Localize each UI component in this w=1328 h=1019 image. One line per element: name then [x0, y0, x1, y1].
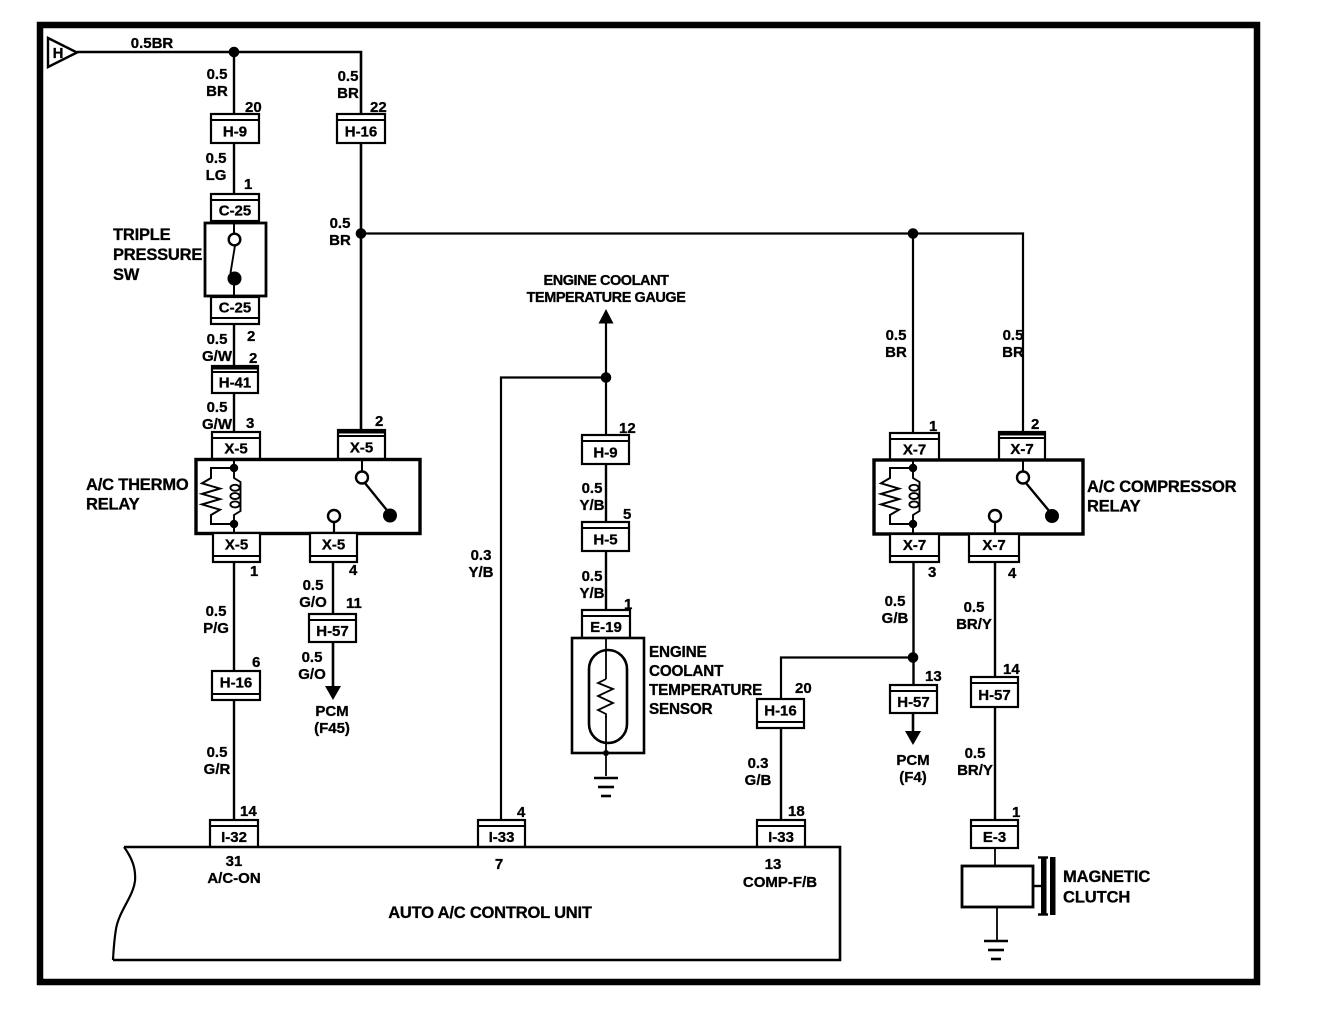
svg-text:31: 31: [226, 853, 243, 870]
connector I-32 pin 14: [210, 803, 258, 848]
svg-text:0.5: 0.5: [207, 399, 228, 416]
svg-text:0.5: 0.5: [964, 599, 985, 616]
svg-text:TEMPERATURE GAUGE: TEMPERATURE GAUGE: [527, 290, 687, 306]
svg-text:0.3: 0.3: [748, 755, 769, 772]
pin 13 / COMP-F/B labels: [743, 856, 817, 891]
svg-text:4: 4: [517, 804, 526, 821]
svg-text:0.5BR: 0.5BR: [131, 35, 174, 52]
label 0.5 G/O 2: [298, 649, 326, 683]
svg-text:0.5: 0.5: [302, 649, 323, 666]
connector X-7 bottom-mid pin 4: [969, 534, 1019, 582]
svg-text:E-19: E-19: [590, 619, 622, 636]
wire 0.3 Y/B long run: [501, 378, 606, 821]
svg-text:X-7: X-7: [982, 537, 1005, 554]
wire 0.5 G/B down: [912, 562, 914, 685]
label 0.5 G/W 2: [202, 399, 233, 433]
ground clutch ground: [984, 941, 1008, 959]
svg-text:(F4): (F4): [899, 769, 927, 786]
label 0.5 G/W 1: [202, 331, 233, 365]
svg-text:2: 2: [375, 413, 383, 430]
label ENGINE COOLANT TEMPERATURE GAUGE: [527, 273, 687, 306]
svg-text:H-41: H-41: [219, 375, 252, 392]
svg-text:G/O: G/O: [299, 594, 327, 611]
svg-text:H-16: H-16: [345, 124, 378, 141]
svg-text:20: 20: [245, 99, 262, 116]
svg-text:AUTO A/C CONTROL UNIT: AUTO A/C CONTROL UNIT: [388, 904, 592, 922]
svg-text:G/R: G/R: [204, 761, 231, 778]
svg-text:Y/B: Y/B: [579, 585, 604, 602]
svg-text:RELAY: RELAY: [86, 496, 140, 514]
label 0.5 BR col2: [337, 68, 359, 102]
svg-text:COOLANT: COOLANT: [649, 663, 724, 680]
junction bus tap at X-7 no1: [908, 228, 919, 239]
svg-text:1: 1: [1012, 804, 1020, 821]
svg-text:1: 1: [244, 176, 252, 193]
svg-text:14: 14: [240, 803, 257, 820]
svg-text:H-9: H-9: [593, 445, 617, 462]
wire 0.5 Y/B seg2: [605, 551, 607, 610]
svg-text:H-16: H-16: [220, 675, 253, 692]
relay switch compressor relay: [989, 472, 1059, 535]
connector I-33 left pin 4: [478, 804, 526, 848]
svg-text:LG: LG: [206, 167, 227, 184]
wire X-5(2) pivot stub: [361, 461, 363, 472]
junction tap to H-16(20): [908, 652, 919, 663]
connector H (source triangle): [48, 38, 77, 67]
connector C-25 bottom pin 2: [211, 297, 259, 345]
wire coil to X-7(3): [912, 524, 914, 534]
connector H-16 mid-left pin 6: [212, 654, 260, 700]
svg-text:X-7: X-7: [1010, 441, 1033, 458]
svg-text:BR/Y: BR/Y: [957, 762, 993, 779]
wire clutch to ground: [996, 907, 998, 940]
wire 0.5 BR/Y seg2: [994, 707, 996, 820]
relay coil+resistor compressor relay: [881, 464, 920, 528]
label 0.5 G/O 1: [299, 577, 327, 611]
wire X-5(3) into relay: [233, 459, 235, 468]
connector H-57 right-lower pin 13: [890, 668, 942, 713]
svg-text:6: 6: [252, 654, 260, 671]
pin 31 / A/C-ON labels: [207, 853, 260, 887]
label TRIPLE PRESSURE SW: [113, 226, 202, 284]
label 0.5 BR/Y 2: [957, 745, 993, 779]
magnetic clutch body: [962, 857, 1056, 915]
wire 0.5 P/G: [233, 562, 235, 671]
svg-text:TEMPERATURE: TEMPERATURE: [649, 682, 762, 699]
svg-text:I-33: I-33: [489, 829, 515, 846]
svg-text:13: 13: [925, 668, 942, 685]
wire 0.5 G/O seg1: [332, 562, 334, 614]
wire E-3 to clutch: [994, 848, 996, 866]
svg-text:H-57: H-57: [897, 694, 930, 711]
label 0.5 LG: [206, 150, 227, 184]
svg-text:0.5: 0.5: [885, 593, 906, 610]
svg-text:2: 2: [249, 350, 257, 367]
connector H-16 pin 22: [337, 99, 387, 143]
svg-text:BR: BR: [337, 85, 359, 102]
svg-text:BR: BR: [885, 344, 907, 361]
svg-text:0.5: 0.5: [886, 327, 907, 344]
wire 0.5BR feed from H: [77, 52, 361, 114]
connector H-16 lower-mid pin 20: [757, 680, 812, 728]
svg-text:CLUTCH: CLUTCH: [1063, 889, 1130, 907]
svg-text:PRESSURE: PRESSURE: [113, 246, 202, 264]
svg-text:Y/B: Y/B: [579, 497, 604, 514]
svg-text:0.5: 0.5: [206, 150, 227, 167]
label 0.5 BR/Y 1: [956, 599, 992, 633]
svg-text:C-25: C-25: [219, 300, 252, 317]
label 0.5 BR x1023: [1002, 327, 1024, 361]
wire 0.3 G/B: [780, 728, 782, 820]
svg-text:20: 20: [795, 680, 812, 697]
label ENGINE COOLANT TEMPERATURE SENSOR: [649, 644, 762, 718]
svg-text:2: 2: [1031, 416, 1039, 433]
connector H-57 left pin 11: [309, 614, 356, 642]
junction gauge line tap: [601, 372, 612, 383]
svg-text:0.5: 0.5: [1003, 327, 1024, 344]
svg-text:H-16: H-16: [764, 703, 797, 720]
svg-text:H-57: H-57: [978, 687, 1011, 704]
wire 0.5 G/W seg2: [233, 393, 235, 432]
svg-text:3: 3: [246, 415, 254, 432]
label MAGNETIC CLUTCH: [1063, 868, 1150, 907]
label 0.5 P/G: [203, 603, 229, 637]
wire 0.5 G/R: [233, 700, 235, 820]
svg-text:Y/B: Y/B: [468, 564, 493, 581]
svg-text:0.5: 0.5: [965, 745, 986, 762]
svg-text:MAGNETIC: MAGNETIC: [1063, 868, 1150, 886]
svg-text:I-32: I-32: [221, 829, 247, 846]
svg-text:1: 1: [624, 596, 632, 613]
wire X-7(1) into relay: [912, 460, 914, 468]
connector C-25 top pin 1: [211, 176, 259, 221]
connector X-7 top-left pin 1: [890, 418, 939, 460]
svg-text:H-57: H-57: [316, 623, 349, 640]
svg-text:ENGINE: ENGINE: [649, 644, 706, 661]
svg-text:RELAY: RELAY: [1087, 498, 1141, 516]
arrow to gauge (up): [599, 309, 614, 435]
svg-text:G/W: G/W: [202, 416, 233, 433]
wire branch down to H-9: [233, 52, 235, 114]
auto A/C control unit box: [113, 847, 840, 960]
svg-text:18: 18: [788, 803, 805, 820]
svg-text:A/C COMPRESSOR: A/C COMPRESSOR: [1087, 478, 1237, 496]
wire drop to X-7 no1: [912, 234, 914, 434]
connector H-5 pin 5: [582, 506, 631, 551]
connector H-41 pin 2: [211, 350, 259, 393]
svg-text:P/G: P/G: [203, 620, 229, 637]
connector X-5 bottom-left pin 1: [213, 533, 260, 580]
switch contact circle: [229, 234, 241, 246]
svg-text:X-7: X-7: [903, 442, 926, 459]
label A/C COMPRESSOR RELAY: [1087, 478, 1237, 516]
ground sensor ground: [594, 778, 618, 796]
svg-text:A/C-ON: A/C-ON: [207, 870, 260, 887]
label 0.5BR: [131, 35, 174, 52]
connector X-5 bottom-mid pin 4: [310, 533, 358, 579]
svg-text:PCM: PCM: [896, 752, 929, 769]
svg-text:14: 14: [1003, 661, 1020, 678]
svg-text:ENGINE COOLANT: ENGINE COOLANT: [543, 273, 669, 289]
svg-text:X-5: X-5: [322, 537, 345, 554]
label 0.5 BR at bus: [329, 215, 351, 249]
label 0.5 Y/B 1: [579, 480, 604, 514]
label 0.5 BR x913: [885, 327, 907, 361]
svg-text:0.5: 0.5: [206, 603, 227, 620]
svg-text:12: 12: [619, 420, 636, 437]
svg-text:SW: SW: [113, 266, 140, 284]
svg-text:1: 1: [250, 563, 258, 580]
svg-text:TRIPLE: TRIPLE: [113, 226, 171, 244]
svg-text:(F45): (F45): [314, 720, 350, 737]
svg-text:E-3: E-3: [983, 829, 1006, 846]
svg-text:0.5: 0.5: [207, 744, 228, 761]
label 0.5 G/B: [882, 593, 909, 627]
svg-text:11: 11: [346, 595, 362, 612]
triple pressure switch body: [205, 223, 266, 296]
svg-text:G/B: G/B: [882, 610, 909, 627]
wire bus 0.5BR horizontal: [361, 234, 1023, 433]
svg-text:0.5: 0.5: [582, 568, 603, 585]
A/C thermo relay box: [196, 460, 420, 534]
label PCM (F45): [314, 703, 350, 737]
label A/C THERMO RELAY: [86, 476, 189, 514]
svg-text:0.5: 0.5: [303, 577, 324, 594]
svg-text:0.5: 0.5: [207, 66, 228, 83]
svg-text:H-9: H-9: [223, 124, 247, 141]
connector X-7 bottom-left pin 3: [890, 534, 939, 581]
svg-text:X-7: X-7: [903, 537, 926, 554]
svg-text:BR: BR: [329, 232, 351, 249]
label 0.3 G/B: [745, 755, 772, 789]
label 0.5 BR col1: [206, 66, 228, 100]
wire 0.5 LG to C-25: [233, 143, 235, 194]
svg-text:0.5: 0.5: [582, 480, 603, 497]
wire sensor to ground: [605, 753, 607, 776]
svg-text:BR/Y: BR/Y: [956, 616, 992, 633]
label 0.5 Y/B 2: [579, 568, 604, 602]
svg-text:G/W: G/W: [202, 348, 233, 365]
svg-text:7: 7: [495, 856, 503, 873]
svg-text:0.5: 0.5: [207, 331, 228, 348]
svg-text:G/O: G/O: [298, 666, 326, 683]
connector E-19 pin 1: [582, 596, 632, 638]
svg-text:X-5: X-5: [224, 441, 247, 458]
arrow to PCM F4: [905, 713, 921, 745]
wire 0.5 G/W seg1: [233, 324, 235, 366]
svg-text:SENSOR: SENSOR: [649, 701, 713, 718]
svg-text:1: 1: [929, 418, 937, 435]
svg-text:I-33: I-33: [768, 829, 794, 846]
svg-text:0.5: 0.5: [330, 215, 351, 232]
svg-text:0.5: 0.5: [338, 68, 359, 85]
A/C compressor relay box: [874, 460, 1083, 534]
connector X-5 top-right pin 2: [337, 413, 386, 459]
junction bus tap at col2: [356, 228, 367, 239]
label 0.3 Y/B: [468, 547, 493, 581]
svg-text:0.3: 0.3: [471, 547, 492, 564]
svg-text:A/C THERMO: A/C THERMO: [86, 476, 189, 494]
svg-text:G/B: G/B: [745, 772, 772, 789]
wire 0.5 Y/B seg1: [605, 464, 607, 522]
label 0.5 G/R: [204, 744, 231, 778]
wire coil to X-5(1): [233, 524, 235, 534]
connector E-3 pin 1: [971, 804, 1020, 848]
connector H-9 pin 20: [211, 99, 262, 143]
svg-text:3: 3: [928, 564, 936, 581]
svg-text:2: 2: [247, 328, 255, 345]
svg-text:COMP-F/B: COMP-F/B: [743, 874, 817, 891]
relay switch thermo relay: [328, 472, 397, 534]
svg-text:C-25: C-25: [219, 203, 252, 220]
connector X-5 top-left pin 3: [212, 415, 260, 459]
svg-text:H-5: H-5: [593, 532, 617, 549]
engine coolant temperature sensor body: [572, 638, 644, 756]
svg-text:4: 4: [349, 562, 358, 579]
svg-text:X-5: X-5: [350, 440, 373, 457]
label PCM (F4): [896, 752, 929, 786]
junction top feed at H-9 branch: [229, 47, 240, 58]
connector X-7 top-right pin 2: [998, 416, 1046, 460]
svg-text:4: 4: [1008, 565, 1017, 582]
svg-text:BR: BR: [206, 83, 228, 100]
wire link H-16(20) up to junction: [781, 658, 913, 700]
svg-text:BR: BR: [1002, 344, 1024, 361]
svg-text:PCM: PCM: [315, 703, 348, 720]
wire dot to C-25 bottom: [233, 285, 235, 297]
svg-text:5: 5: [623, 506, 631, 523]
svg-text:22: 22: [370, 99, 387, 116]
wire X-7(2) pivot stub: [1022, 461, 1024, 472]
wire 0.5 BR vertical col2: [360, 143, 363, 430]
relay coil+resistor thermo relay: [202, 464, 241, 528]
wire 0.5 BR/Y seg1: [994, 562, 996, 677]
arrow to PCM F45: [325, 642, 341, 700]
connector H-57 far-right pin 14: [971, 661, 1020, 707]
switch blade: [231, 246, 236, 274]
connector I-33 right pin 18: [757, 803, 805, 848]
svg-text:X-5: X-5: [225, 537, 248, 554]
svg-text:13: 13: [765, 856, 782, 873]
connector H-9 mid pin 12: [582, 420, 636, 464]
svg-text:H: H: [53, 45, 64, 62]
wire stub into switch: [233, 221, 235, 234]
switch moving contact dot: [228, 272, 242, 286]
